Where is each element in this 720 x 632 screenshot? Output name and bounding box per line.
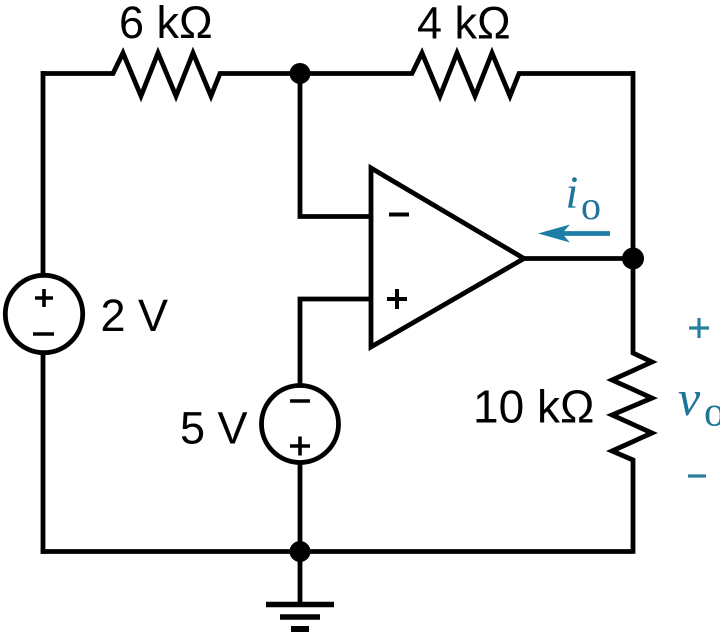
- svg-text:o: o: [581, 183, 601, 228]
- svg-text:5 V: 5 V: [180, 403, 248, 454]
- svg-text:4 kΩ: 4 kΩ: [417, 0, 511, 49]
- svg-text:2 V: 2 V: [101, 290, 169, 341]
- svg-text:o: o: [704, 390, 720, 436]
- svg-text:i: i: [566, 167, 579, 218]
- svg-text:6 kΩ: 6 kΩ: [119, 0, 213, 48]
- svg-text:10 kΩ: 10 kΩ: [473, 381, 594, 433]
- svg-text:v: v: [678, 370, 701, 426]
